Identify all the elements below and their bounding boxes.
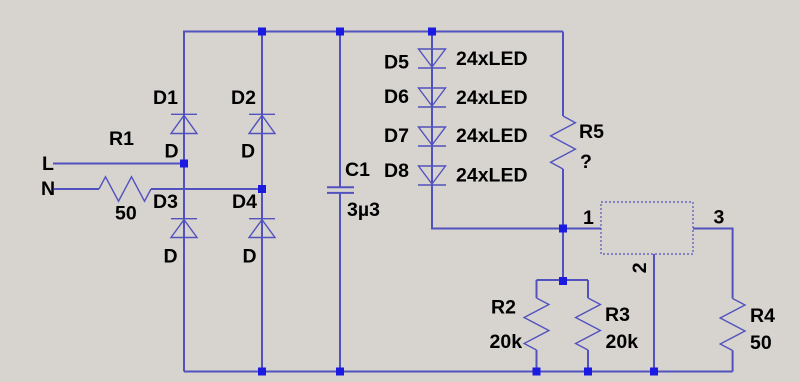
svg-text:R3: R3 (605, 304, 630, 326)
svg-text:3µ3: 3µ3 (347, 199, 380, 221)
node R2 bottom (533, 368, 541, 376)
node L junction (180, 160, 188, 168)
svg-text:D: D (243, 246, 257, 268)
wire left branch vertical (D1/D3) (183, 31, 185, 372)
svg-text:3: 3 (714, 207, 725, 229)
wire box pin3 to R4 (693, 229, 733, 299)
node 1 junction (559, 225, 567, 233)
svg-text:50: 50 (115, 203, 137, 225)
svg-text:?: ? (580, 151, 592, 173)
svg-text:20k: 20k (606, 331, 639, 353)
node top D2 (258, 28, 266, 36)
svg-text:R4: R4 (750, 305, 775, 327)
diode D3 (171, 219, 197, 238)
wire bottom bus (184, 371, 733, 373)
node pin2 bottom (650, 368, 658, 376)
wire node1 to box pin1 (563, 228, 601, 230)
svg-text:N: N (41, 178, 55, 200)
wire R2/R3 top tee (537, 279, 589, 281)
wire R5 to node1 to R2R3 node (562, 169, 564, 281)
resistor R4 (720, 299, 745, 351)
IC box (dotted) (601, 202, 693, 254)
LED diode D5 (418, 49, 446, 68)
LED diode D7 (418, 127, 446, 146)
wire box pin2 to bottom bus (653, 254, 655, 372)
resistor R3 (576, 298, 601, 350)
resistor R1 (99, 177, 151, 201)
svg-text:D: D (165, 141, 179, 163)
node top LED (428, 28, 436, 36)
svg-text:R2: R2 (491, 297, 516, 319)
svg-text:50: 50 (750, 332, 772, 354)
wire R4 bottom lead (732, 351, 734, 372)
svg-text:D7: D7 (384, 125, 409, 147)
svg-text:2: 2 (629, 262, 651, 273)
wire C1 branch lower (339, 193, 341, 372)
svg-text:D2: D2 (231, 87, 256, 109)
svg-text:D8: D8 (384, 160, 409, 182)
svg-text:24xLED: 24xLED (456, 87, 528, 109)
node D4 bottom (258, 368, 266, 376)
svg-text:D4: D4 (232, 191, 257, 213)
resistor R5 (551, 116, 576, 169)
wire N right of R1 (151, 188, 262, 190)
LED diode D8 (418, 166, 446, 185)
wire N left (54, 188, 99, 190)
svg-text:D: D (164, 246, 178, 268)
wire R2 leads (536, 280, 538, 372)
diode D2 (249, 114, 275, 133)
wire top bus (184, 31, 563, 33)
svg-text:D3: D3 (153, 191, 178, 213)
svg-text:24xLED: 24xLED (456, 48, 528, 70)
node R3 bottom (584, 368, 592, 376)
capacitor C1 (327, 187, 354, 193)
svg-text:L: L (42, 153, 54, 175)
svg-text:R5: R5 (579, 121, 604, 143)
wire R3 leads (587, 280, 589, 372)
diode D1 (171, 114, 197, 133)
node R2R3 top (559, 277, 567, 285)
resistor R2 (524, 298, 549, 350)
wire LED branch (432, 32, 563, 229)
node N junction (258, 185, 266, 193)
wire C1 branch upper (339, 32, 341, 188)
node top C1 (336, 28, 344, 36)
svg-text:D: D (241, 141, 255, 163)
svg-text:D1: D1 (153, 87, 178, 109)
svg-text:D6: D6 (384, 86, 409, 108)
svg-text:R1: R1 (109, 128, 134, 150)
node C1 bottom (336, 368, 344, 376)
svg-text:24xLED: 24xLED (456, 165, 528, 187)
svg-text:1: 1 (583, 207, 594, 229)
svg-text:24xLED: 24xLED (456, 125, 528, 147)
wire L (53, 163, 184, 165)
diode D4 (249, 219, 275, 238)
svg-text:C1: C1 (345, 159, 370, 181)
wire second branch vertical (D2/D4) (261, 32, 263, 372)
wire R5 branch upper (562, 32, 564, 117)
LED diode D6 (418, 88, 446, 107)
svg-text:D5: D5 (384, 52, 409, 74)
svg-text:20k: 20k (490, 331, 523, 353)
